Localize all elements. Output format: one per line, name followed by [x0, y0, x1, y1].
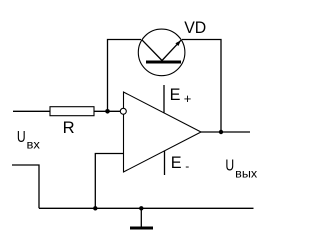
node B junction dot on output wire [219, 130, 223, 134]
node C junction dot on bottom rail [93, 206, 97, 210]
op-amp U1 E- supply tick [164, 151, 166, 176]
wire output [201, 131, 250, 133]
wire bottom rail [39, 207, 254, 209]
svg-text:U: U [225, 158, 234, 175]
transistor VD collector lead [142, 40, 162, 61]
wire lower input lead [12, 165, 39, 208]
svg-text:R: R [63, 119, 75, 137]
op-amp U1 triangle [124, 92, 202, 172]
transistor VD emitter lead with arrow [162, 40, 181, 60]
svg-text:вых: вых [235, 167, 257, 181]
svg-text:E: E [171, 153, 182, 172]
wire transistor VD right to corner and down to output [182, 40, 221, 133]
transistor VD base bar [146, 61, 181, 64]
svg-text:U: U [17, 129, 26, 146]
svg-text:VD: VD [184, 18, 206, 37]
op-amp U1 inverting input bubble [120, 108, 126, 114]
svg-text:вх: вх [27, 138, 40, 152]
transistor VD body circle [138, 29, 185, 76]
node A junction dot [105, 109, 110, 114]
svg-text:+: + [184, 91, 192, 106]
wire upper input lead [13, 110, 50, 112]
ground [140, 208, 142, 226]
svg-text:E: E [170, 85, 181, 104]
wire resistor to node A [94, 110, 120, 112]
node D junction dot ground tap [139, 206, 143, 210]
wire non-inverting input [95, 154, 123, 209]
wire riser node A to transistor VD left [108, 40, 142, 112]
transistor VD emitter arrowhead [175, 40, 181, 46]
resistor R [50, 107, 94, 116]
svg-text:-: - [185, 159, 189, 173]
op-amp U1 E+ supply tick [163, 85, 165, 113]
